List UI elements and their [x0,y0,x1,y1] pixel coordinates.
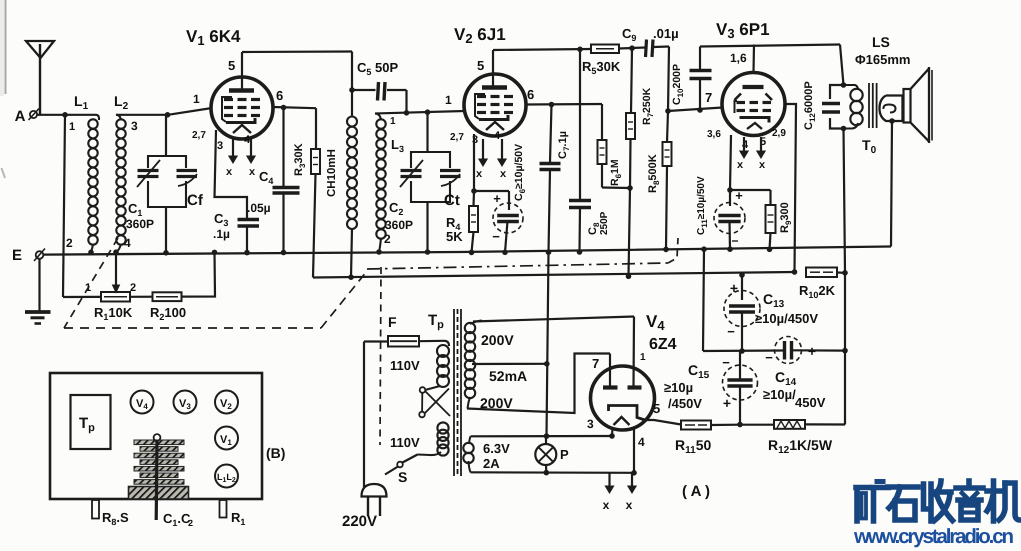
svg-text:C7.1µ: C7.1µ [557,131,571,159]
electrolytic C6 ≥10µ/50V [493,203,523,233]
svg-text:2A: 2A [483,456,500,471]
svg-text:CH10mH: CH10mH [326,149,338,197]
svg-text:V1 6K4: V1 6K4 [186,27,241,48]
capacitor C3 .1µ [238,218,260,222]
capacitor C4 .05µ [282,108,284,187]
HV center tap [472,363,547,365]
chassis layout box B [50,373,262,499]
svg-text:−: − [727,324,735,339]
node: C15 bottom [737,422,743,428]
heater pins V3 [743,137,745,153]
node: C13 top [739,272,745,278]
svg-text:≥10µ/450V: ≥10µ/450V [755,311,818,326]
svg-text:x: x [759,159,766,171]
svg-text:−: − [722,355,730,370]
svg-text:x: x [603,498,610,512]
svg-text:x: x [626,498,633,512]
svg-text:R330K: R330K [293,143,307,176]
wire L2 top to V1 grid [116,114,168,116]
V3 cathode / C11 / R9 [730,135,731,190]
svg-text:C5 50P: C5 50P [357,60,398,77]
wire R1/R2 branch [63,252,215,297]
V3 plate wire [785,104,797,272]
node: R7 top [629,45,635,51]
node: C7 tap [549,102,555,108]
node: V3 grid [665,108,671,114]
svg-text:E: E [12,247,22,264]
svg-text:R61M: R61M [609,159,623,186]
node: To top [841,82,847,88]
variable capacitor C2 / trimmer Ct tank [426,112,428,152]
svg-text:5: 5 [477,58,484,73]
svg-text:1: 1 [69,121,75,133]
choke CH 10mH [347,117,357,127]
node: tank bottom on rail [163,250,169,256]
svg-text:x: x [226,166,233,178]
variable capacitor C1 / trimmer Cf tank [165,115,167,156]
node: L1 bottom on ground rail [88,250,94,256]
svg-text:1: 1 [640,352,646,363]
svg-text:LS: LS [872,34,890,50]
wire rail to heater node [547,252,549,436]
heater wires [471,435,613,437]
svg-text:1: 1 [445,93,452,107]
svg-text:C10200P: C10200P [671,64,685,105]
scan edge artifact [0,0,4,96]
svg-text:R530K: R530K [582,59,621,76]
svg-text:x: x [737,159,744,171]
svg-text:2: 2 [130,282,136,294]
svg-text:+: + [808,343,816,359]
svg-text:2,7: 2,7 [450,132,464,143]
svg-text:/450V: /450V [668,396,702,411]
svg-text:P: P [560,447,569,462]
svg-text:4: 4 [638,435,645,449]
wire B+ column [844,129,846,273]
resistor R3 30K [315,108,317,149]
svg-text:2,9: 2,9 [772,128,786,139]
node: C3 on rail [244,250,250,256]
tube positions in layout [131,391,154,414]
chassis dashed boundary [64,238,118,328]
resistor R12 1K/5W (wirewound) [774,420,805,429]
mains wire left [363,342,365,488]
svg-text:4: 4 [494,130,501,142]
svg-text:R8500K: R8500K [647,154,661,193]
resistor R2 100 [153,292,182,301]
V4 pins 3,4 [611,428,614,436]
trimmer Cf [177,169,198,172]
svg-text:C126000P: C126000P [803,81,817,130]
svg-text:Φ165mm: Φ165mm [855,52,910,67]
svg-text:3: 3 [587,417,594,431]
svg-text:F: F [388,314,397,330]
top rail with R5 C9 [493,49,591,50]
To core [868,83,870,128]
node: L2 bottom on ground rail [113,249,119,255]
svg-text:1,6: 1,6 [730,51,747,65]
potentiometer R1 10K [101,292,130,302]
svg-text:2: 2 [188,518,193,528]
svg-text:A: A [15,108,26,125]
svg-text:(B): (B) [266,445,285,461]
svg-text:6: 6 [276,88,283,103]
svg-text:200V: 200V [480,395,513,411]
svg-text:R7250K: R7250K [641,87,655,125]
node: C5 tap [349,87,355,93]
svg-text:C1.C: C1.C [163,511,191,528]
svg-text:110V: 110V [390,435,420,450]
svg-text:V2 6J1: V2 6J1 [454,25,506,46]
antenna [26,41,54,58]
node: center tap ground [544,361,550,367]
top rail right segment [700,45,840,47]
resistor R6 1M [601,104,603,140]
svg-text:www.crystalradio.cn: www.crystalradio.cn [853,525,1014,548]
svg-text:360P: 360P [126,217,154,231]
svg-text:.01µ: .01µ [653,26,679,41]
Tp core [453,309,455,476]
capacitor C2 360P [401,169,422,172]
svg-text:+: + [493,191,501,206]
capacitor C1 360P (variable) [138,169,159,172]
node: speaker return [889,118,895,124]
node: C2 tank tap [425,109,431,115]
wire A to L1 [37,114,96,116]
node: C4 tap [281,105,287,111]
svg-text:V3 6P1: V3 6P1 [716,20,770,41]
trimmer Ct [440,169,461,172]
resistor R8 500K [667,111,668,142]
V2 pin6 wire [526,103,602,106]
svg-text:2: 2 [66,236,73,250]
svg-text:3: 3 [131,119,138,133]
wire grid bus to V2 [375,111,465,114]
resistor R5 30K [591,45,619,54]
electrolytic C15 ≥10µ/450V [723,365,758,400]
node: V3 plate joint [792,269,798,275]
svg-text:x: x [476,168,483,180]
node: L3 bottom on rail [376,249,382,255]
svg-text:5: 5 [653,401,660,416]
plug 220V [362,484,387,497]
svg-text:Cf: Cf [187,192,204,209]
V1 plate column down to CH [351,52,353,118]
V1 plate lead to top rail [241,52,243,90]
capacitor C7 .1µ [550,105,552,163]
node: center-tap ground column on rail [546,249,552,255]
svg-text:Ct: Ct [444,192,460,209]
watermark 矿石收音机 (drawn glyphs) [856,482,889,522]
svg-text:.1µ: .1µ [213,227,230,241]
heater pins V1 [232,139,234,158]
svg-text:2,7: 2,7 [192,130,206,141]
electrolytic C13 ≥10µ/450V [741,275,743,300]
wire speaker return down [891,121,892,247]
node: lamp bottom [544,470,550,476]
svg-text:+: + [723,395,731,411]
svg-text:−: − [492,229,500,244]
svg-text:≥10µ: ≥10µ [664,380,693,395]
svg-text:200V: 200V [481,332,514,348]
svg-text:6Z4: 6Z4 [649,336,677,353]
wire heater winding top [469,436,471,444]
svg-text:S: S [398,469,407,485]
wire L1 left lead down to R1 branch [63,115,65,297]
svg-text:−: − [731,234,738,248]
V2 plate lead up [492,50,494,87]
svg-text:≥10µ/: ≥10µ/ [763,387,796,402]
node: AVC/R7 bottom [626,274,632,280]
layout legs [92,500,99,519]
svg-text:450V: 450V [795,395,826,410]
Tp outline in layout [71,395,111,449]
electrolytic C14 ≥10µ/450V (horizontal) [775,337,802,364]
svg-text:R8.S: R8.S [102,510,129,527]
svg-text:( A ): ( A ) [682,483,710,500]
V4 plate wrap wires [467,354,610,414]
wire ground to filter node [701,246,707,252]
node: B+ right column [842,270,848,276]
pilot lamp P [535,444,556,465]
voltage changeover switch [420,387,426,393]
node: tank tap [165,112,171,118]
svg-text:3: 3 [217,140,223,152]
svg-text:R110K: R110K [94,305,133,322]
Tp HV secondary [470,321,482,325]
B+ distribution line [313,272,795,278]
svg-text:7: 7 [705,90,712,105]
svg-text:x: x [500,168,507,180]
svg-text:R9300: R9300 [779,202,793,233]
svg-text:220V: 220V [342,513,377,530]
resistor R11 50 [681,421,711,430]
svg-text:360P: 360P [385,218,413,232]
heater pins V4 [608,473,610,488]
node: A/L1 junction [62,112,68,118]
resistor R7 250K [631,48,632,113]
electrolytic C11 ≥10µ/50V [714,203,745,234]
node: C4 on rail [281,250,287,256]
node: C5 out [404,110,410,116]
svg-text:−: − [765,350,773,365]
capacitor C8 250P [577,47,583,53]
svg-text:.05µ: .05µ [247,201,271,215]
node: lamp top [544,433,550,439]
chassis ground symbol [38,259,40,311]
resistor R10 2K [806,268,837,278]
heater pins V2 [482,139,484,161]
switch S [403,455,418,463]
svg-text:250P: 250P [599,211,610,235]
svg-text:+: + [730,280,738,296]
resistor R9 300 [730,189,771,191]
svg-text:1: 1 [390,116,396,127]
svg-text:52mA: 52mA [489,368,527,384]
svg-text:R2100: R2100 [150,305,186,322]
V1 cathode to C3 [215,130,248,218]
V4 cathode out [646,420,682,425]
node: CH bottom [348,274,354,280]
capacitor C10 200P [699,47,701,70]
svg-text:7: 7 [592,356,599,371]
V1 screen wire pin6 [273,107,316,108]
V2 cathode / R4 5K / C6 [473,134,475,191]
svg-text:5: 5 [228,58,235,73]
node: To bottom [841,126,847,132]
svg-text:1: 1 [193,92,200,106]
svg-text:6.3V: 6.3V [483,441,510,456]
node: filter ground node [739,348,745,354]
svg-text:3,6: 3,6 [707,129,721,140]
svg-text:5K: 5K [446,229,463,244]
svg-text:110V: 110V [390,358,420,373]
svg-text:6: 6 [527,87,534,102]
svg-text:x: x [249,166,256,178]
transformer To primary [844,85,859,90]
wire V3 grid [668,108,723,112]
